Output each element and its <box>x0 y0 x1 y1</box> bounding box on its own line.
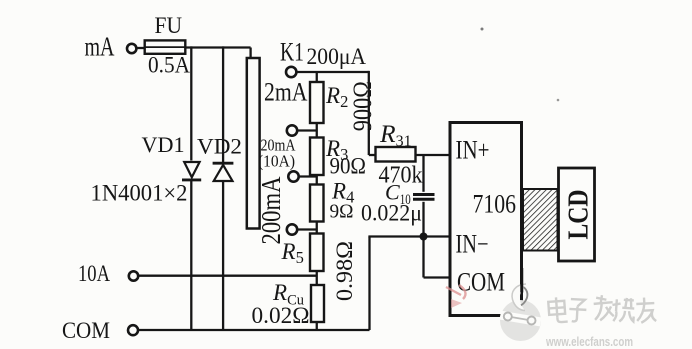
svg-text:90Ω: 90Ω <box>330 154 367 180</box>
svg-text:(10A): (10A) <box>258 152 295 171</box>
svg-text:200mA: 200mA <box>256 176 286 244</box>
svg-text:www.elecfans.com: www.elecfans.com <box>545 335 633 349</box>
svg-text:200μA: 200μA <box>307 44 367 70</box>
svg-text:FU: FU <box>155 13 183 38</box>
svg-text:1N4001×2: 1N4001×2 <box>91 181 188 207</box>
svg-text:0.98Ω: 0.98Ω <box>332 241 357 301</box>
svg-text:LCD: LCD <box>563 190 594 240</box>
svg-text:mA: mA <box>85 32 115 62</box>
svg-text:0.02Ω: 0.02Ω <box>252 303 310 329</box>
svg-text:IN−: IN− <box>456 230 489 259</box>
svg-text:900Ω: 900Ω <box>348 81 377 131</box>
svg-text:K1: K1 <box>280 38 304 67</box>
svg-text:2mA: 2mA <box>264 78 308 107</box>
svg-text:VD1: VD1 <box>142 132 185 157</box>
svg-text:9Ω: 9Ω <box>330 201 354 223</box>
svg-text:0.5A: 0.5A <box>148 53 190 78</box>
svg-text:0.022μ: 0.022μ <box>361 201 422 226</box>
svg-text:10A: 10A <box>78 261 110 287</box>
svg-text:VD2: VD2 <box>197 134 242 159</box>
svg-text:COM: COM <box>62 318 110 344</box>
svg-text:7106: 7106 <box>473 190 517 219</box>
svg-text:IN+: IN+ <box>456 136 490 165</box>
